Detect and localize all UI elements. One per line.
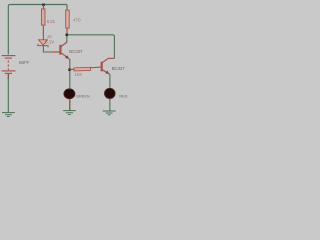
wire R1 to zener	[42, 25, 44, 39]
resistor R3	[74, 67, 90, 71]
wire Q1 emitter down to LED1	[69, 59, 70, 89]
label KBFF (battery)	[19, 60, 30, 65]
node A (rail / R1 junction dot)	[42, 4, 45, 7]
LED LED2 (red)	[105, 88, 116, 98]
wire top rail	[8, 5, 67, 55]
transistor Q2	[101, 58, 115, 74]
label RED	[119, 94, 127, 98]
node B (R2 / Q1 collector / Q2 collector junction dot)	[66, 34, 69, 37]
svg-text:1k8: 1k8	[75, 72, 83, 77]
ground (LED1)	[63, 111, 76, 115]
svg-text:470: 470	[73, 18, 81, 23]
ground (LED2)	[103, 111, 116, 115]
resistor R3 lead left	[70, 68, 74, 70]
wire Q2 emitter down to LED2	[109, 74, 110, 89]
resistor R2	[66, 10, 70, 28]
value label ZD	[47, 35, 52, 39]
svg-text:GREEN: GREEN	[76, 95, 90, 99]
wire R2 bottom lead	[66, 28, 68, 34]
wire LED2 to ground	[109, 99, 111, 111]
resistor R1 lead top	[42, 5, 44, 9]
svg-text:5.1V: 5.1V	[45, 40, 54, 45]
LED LED1 (green)	[64, 89, 75, 99]
svg-text:BC337: BC337	[69, 49, 83, 54]
value label 470	[73, 18, 81, 23]
wire Q1 collector up to node B	[66, 35, 68, 42]
transistor label BC337 (Q2)	[112, 66, 126, 71]
resistor R2 lead top	[66, 5, 68, 11]
transistor Q1 base lead	[51, 51, 60, 53]
wire battery negative down	[7, 74, 9, 112]
label GREEN	[76, 95, 90, 99]
wire R3 to Q2 base	[90, 66, 101, 69]
resistor R1	[42, 9, 46, 25]
value label 5.1V	[45, 40, 54, 45]
node C (emitter / R3 junction dot)	[68, 68, 71, 71]
value label 8.2k	[47, 19, 56, 24]
value label 1k8	[75, 72, 83, 77]
svg-text:BC337: BC337	[112, 66, 126, 71]
wire zener to Q1 base	[43, 46, 51, 52]
wire node B to Q2 collector	[68, 35, 114, 59]
wire LED1 to ground	[69, 99, 71, 110]
battery BT1	[2, 56, 16, 74]
transistor Q1	[59, 42, 69, 59]
svg-text:RED: RED	[119, 94, 127, 98]
svg-text:KBFF: KBFF	[19, 60, 30, 65]
transistor label BC337 (Q1)	[69, 49, 83, 54]
svg-text:8.2k: 8.2k	[47, 19, 56, 24]
ground (battery)	[2, 113, 15, 117]
svg-text:ZD: ZD	[47, 35, 52, 39]
zener diode ZD1	[38, 40, 48, 48]
